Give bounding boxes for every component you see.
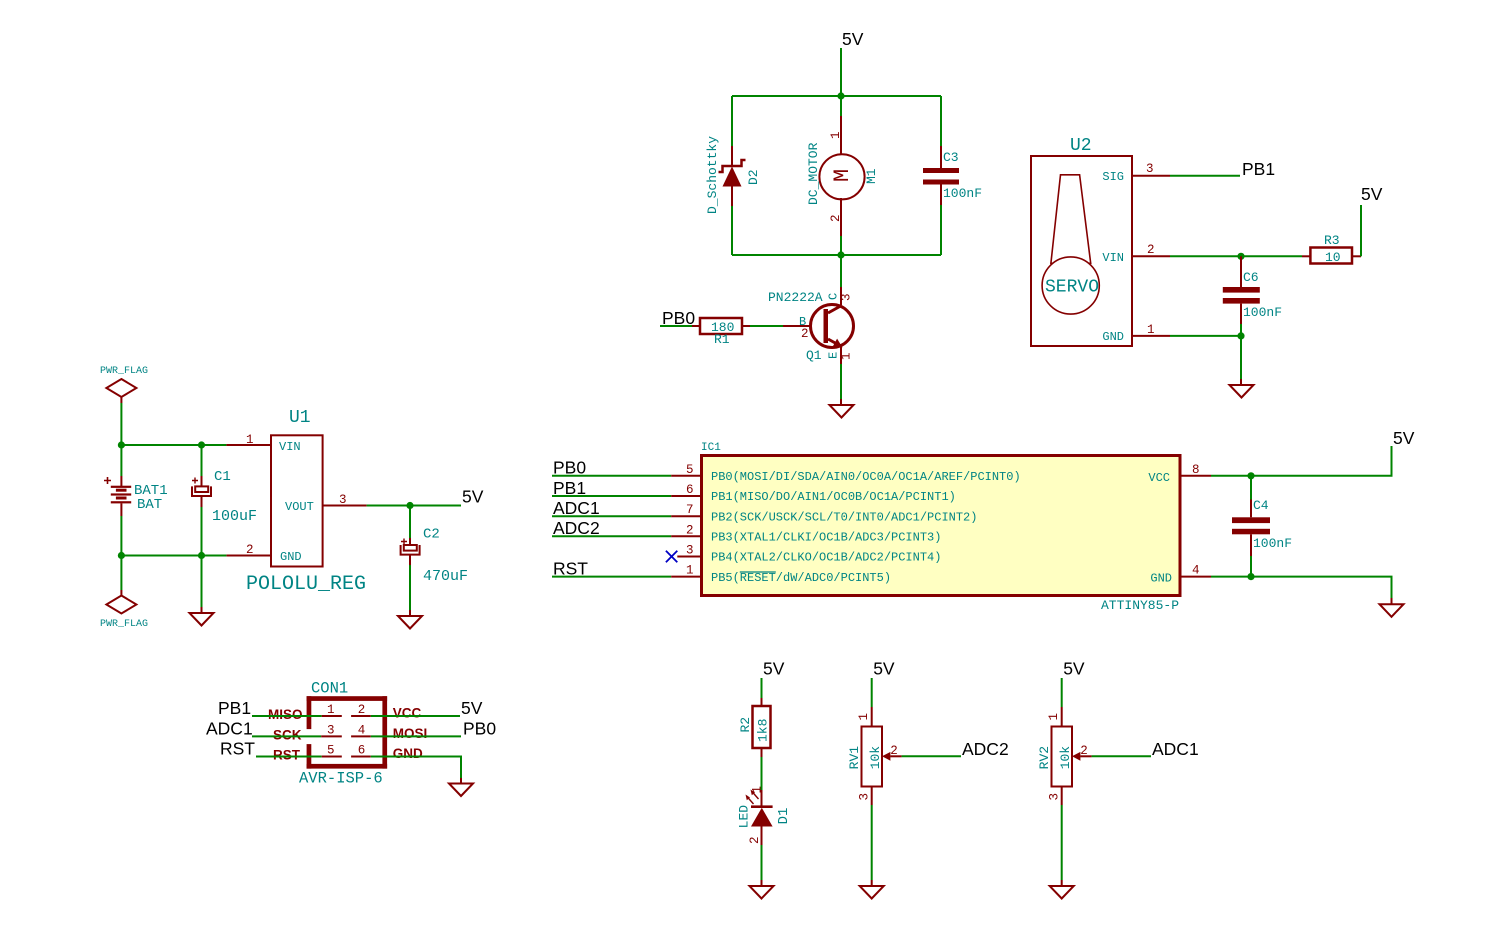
battery BAT1 [104,476,131,516]
wire motor pin1 to rail [840,96,842,116]
pin SIG (U2 pin 3) [1132,175,1170,177]
LED D1 [746,790,773,846]
wire D1 to ground [761,845,763,880]
ground (CON1) [449,778,473,796]
potentiometer RV2 [1052,707,1092,805]
wire RV2 wiper to ADC1 [1092,755,1151,757]
no-connect X [666,551,677,562]
wire battery to GND rail [120,516,122,556]
svg-text:PB2(SCK/USCK/SCL/T0/INT0/ADC1/: PB2(SCK/USCK/SCL/T0/INT0/ADC1/PCINT2) [711,510,977,524]
resistor R2 [753,698,771,757]
wire C3 branch lower [940,205,942,255]
svg-text:6: 6 [686,483,694,497]
node junction GND/C6 [1237,332,1244,339]
svg-text:470uF: 470uF [423,568,468,585]
svg-text:RV1: RV1 [847,746,862,770]
capacitor C1 [192,476,211,507]
wire pin 4 to PB0 [371,735,461,737]
svg-text:VIN: VIN [279,440,301,454]
wire VIN rail [121,444,226,446]
svg-text:5: 5 [327,744,335,758]
svg-text:3: 3 [840,293,854,301]
svg-text:PB0: PB0 [463,719,496,739]
svg-text:C4: C4 [1253,498,1269,513]
wire C6 to GND rail [1240,324,1242,336]
svg-text:CON1: CON1 [311,680,348,698]
svg-text:5V: 5V [1393,428,1415,448]
svg-text:SIG: SIG [1102,170,1124,184]
node junction C2/5V [406,502,413,509]
svg-text:PB0: PB0 [553,458,586,478]
CON1 pin 3 [321,735,342,737]
regulator U1 pin 3 VOUT [323,505,367,507]
node junction bottom rail [837,251,844,258]
IC1 pin 2 [671,535,701,537]
IC IC1 ATTINY85-P body [702,456,1181,596]
svg-text:1: 1 [327,703,335,717]
svg-text:100nF: 100nF [943,186,982,201]
svg-text:PB1: PB1 [1242,159,1275,179]
ground (RV1) [860,880,884,899]
svg-text:PB3(XTAL1/CLKI/OC1B/ADC3/PCINT: PB3(XTAL1/CLKI/OC1B/ADC3/PCINT3) [711,531,941,545]
wire PWR_FLAG to VIN rail [120,403,122,445]
wire ADC2 to pin 2 [552,535,671,537]
svg-text:3: 3 [339,493,347,507]
wire R1 to Q1 base [750,325,783,327]
svg-text:8: 8 [1192,463,1200,477]
diode D2 D_Schottky [719,146,746,206]
svg-text:Q1: Q1 [806,348,822,363]
wire C2 to ground [409,565,411,610]
ground (C1) [190,607,214,626]
svg-text:ADC1: ADC1 [1152,739,1199,759]
svg-text:R2: R2 [738,717,753,733]
wire GND to ground [1211,577,1392,598]
svg-text:PB1: PB1 [218,698,251,718]
svg-text:7: 7 [686,503,694,517]
wire 5V to top rail [840,48,842,96]
node junction C4 bottom [1247,573,1254,580]
svg-text:4: 4 [358,723,366,737]
svg-text:ATTINY85-P: ATTINY85-P [1101,598,1179,613]
svg-text:1k8: 1k8 [756,719,771,742]
svg-text:2: 2 [829,214,843,222]
svg-text:D_Schottky: D_Schottky [705,136,720,214]
svg-text:1: 1 [840,352,854,360]
IC1 pin 1 [671,576,701,578]
regulator U1 body [271,435,323,566]
motor M1 pin 2 [840,198,842,236]
CON1 pin 4 [351,735,371,737]
wire 5V to R2 [761,678,763,698]
wire C3 branch upper [940,96,942,146]
svg-text:3: 3 [1146,162,1154,176]
svg-text:3: 3 [1047,793,1061,801]
wire C4 top [1250,476,1252,500]
IC1 pin 5 [671,475,701,477]
svg-text:1: 1 [1047,713,1061,721]
svg-text:C6: C6 [1243,270,1259,285]
node junction C1/GND [198,552,205,559]
resistor R3 [1302,248,1361,264]
svg-text:PB0(MOSI/DI/SDA/AIN0/OC0A/OC1A: PB0(MOSI/DI/SDA/AIN0/OC0A/OC1A/AREF/PCIN… [711,470,1021,484]
svg-text:PB1(MISO/DO/AIN1/OC0B/OC1A/PCI: PB1(MISO/DO/AIN1/OC0B/OC1A/PCINT1) [711,490,956,504]
wire C1 to GND rail [201,507,203,556]
wire GND rail to PWR_FLAG bottom [120,556,122,591]
svg-text:AVR-ISP-6: AVR-ISP-6 [299,770,383,788]
svg-text:10k: 10k [1058,746,1073,770]
svg-text:2: 2 [686,523,694,537]
node junction BAT/VIN [118,441,125,448]
ground (RV2) [1050,880,1074,899]
power flag PWR_FLAG (top) [100,366,148,403]
wire ADC1 to pin 7 [552,515,671,517]
motor M1 DC_MOTOR [819,154,864,199]
power flag PWR_FLAG (bottom) [100,590,148,630]
wire SIG to PB1 [1170,175,1240,177]
wire VCC to 5V [1211,446,1392,476]
svg-text:5: 5 [686,463,694,477]
potentiometer RV1 [862,707,902,805]
svg-text:R3: R3 [1324,233,1340,248]
svg-text:5V: 5V [462,487,484,507]
CON1 pin 2 [351,715,371,717]
wire ADC1 to pin 3 [252,735,321,737]
svg-text:5V: 5V [1063,659,1085,679]
svg-text:GND: GND [393,746,423,761]
pin VIN (U2 pin 2) [1132,255,1170,257]
svg-text:GND: GND [1102,330,1124,344]
svg-text:C2: C2 [423,527,440,543]
IC1 pin 3 (no connect) [677,556,701,558]
wire GND pin to junction [1170,335,1241,337]
motor M1 pin 1 [840,116,842,154]
svg-text:M: M [830,169,855,182]
wire D2 branch upper [731,96,733,146]
svg-text:1: 1 [1147,323,1155,337]
svg-text:RV2: RV2 [1037,746,1052,769]
svg-text:VCC: VCC [393,706,422,721]
svg-text:BAT: BAT [137,497,162,513]
svg-text:3: 3 [857,793,871,801]
svg-text:2: 2 [890,744,898,758]
IC1 pin 6 [671,495,701,497]
svg-text:1: 1 [686,564,694,578]
svg-text:5V: 5V [763,659,785,679]
wire 5V to RV1 [871,678,873,707]
svg-text:C1: C1 [214,469,231,485]
svg-text:GND: GND [280,550,302,564]
IC1 pin 8 [1181,475,1211,477]
node junction BAT/GND [118,552,125,559]
regulator U1 pin 1 VIN [226,444,271,446]
wire RST to pin 5 [256,756,322,758]
svg-text:6: 6 [358,744,366,758]
wire 5V to RV2 [1061,678,1063,707]
svg-text:PN2222A: PN2222A [768,290,823,305]
wire 5V junction to C2 [409,506,411,539]
wire top rail [732,95,941,97]
wire Q1 emitter to ground [840,364,842,399]
svg-text:3: 3 [686,544,694,558]
svg-text:1: 1 [751,786,765,794]
svg-text:2: 2 [1080,744,1088,758]
svg-text:MOSI: MOSI [393,726,428,741]
wire junction to ground [1240,336,1242,379]
svg-text:4: 4 [1192,564,1200,578]
svg-text:D2: D2 [746,169,761,185]
wire D2 branch lower [731,206,733,255]
svg-text:2: 2 [801,327,809,341]
servo horn circle [1042,257,1099,314]
servo U2 body [1031,156,1132,346]
svg-text:5V: 5V [842,29,864,49]
ground (servo) [1230,379,1254,398]
wire C4 bottom [1250,556,1252,577]
svg-text:MISO: MISO [268,707,303,722]
ground (IC1) [1380,598,1404,617]
svg-text:1: 1 [857,713,871,721]
wire rail to C1 [201,445,203,476]
svg-text:2: 2 [246,543,254,557]
svg-text:1: 1 [829,131,843,139]
svg-text:ADC1: ADC1 [206,719,253,739]
svg-text:PWR_FLAG: PWR_FLAG [100,366,148,377]
wire pin 6 to ground [371,757,461,779]
capacitor C4 [1232,500,1270,557]
svg-text:2: 2 [748,836,762,844]
wire motor pin2 to rail [840,236,842,255]
svg-text:100nF: 100nF [1243,305,1282,320]
wire PB0 to R1 [660,325,692,327]
svg-text:2: 2 [1147,243,1155,257]
svg-text:100nF: 100nF [1253,536,1292,551]
node junction top rail [837,92,844,99]
svg-text:100uF: 100uF [212,508,257,525]
wire VOUT to 5V [367,505,461,507]
wire PB0 to pin 5 [552,475,671,477]
node junction VIN/C6 [1237,253,1244,260]
svg-text:VIN: VIN [1102,251,1124,265]
svg-text:GND: GND [1150,571,1172,585]
svg-text:SERVO: SERVO [1045,278,1099,298]
svg-text:PB5(RESET/dW/ADC0/PCINT5): PB5(RESET/dW/ADC0/PCINT5) [711,571,891,585]
wire R3 to 5V [1360,205,1362,256]
wire RST to pin 1 [552,576,671,578]
svg-text:3: 3 [327,723,335,737]
wire PB1 to pin 6 [552,495,671,497]
svg-text:10k: 10k [868,746,883,770]
wire rail to Q1 collector [840,255,842,287]
resistor R1 [692,318,750,334]
svg-text:PWR_FLAG: PWR_FLAG [100,619,148,630]
wire C1 column to ground [201,556,203,608]
servo horn trapezoid [1051,175,1091,263]
svg-text:LED: LED [737,805,752,829]
svg-text:ADC1: ADC1 [553,498,600,518]
svg-text:DC_MOTOR: DC_MOTOR [806,142,821,205]
svg-text:RST: RST [273,748,301,763]
svg-text:E: E [827,352,841,359]
svg-text:PB4(XTAL2/CLKO/OC1B/ADC2/PCINT: PB4(XTAL2/CLKO/OC1B/ADC2/PCINT4) [711,551,941,565]
node junction C1/VIN [198,441,205,448]
svg-text:VCC: VCC [1148,471,1170,485]
IC1 pin 4 [1181,576,1211,578]
wire R2 to D1 [761,757,763,790]
capacitor C2 [401,538,420,565]
svg-text:POLOLU_REG: POLOLU_REG [246,573,366,596]
transistor Q1 PN2222A [783,287,854,364]
svg-text:D1: D1 [776,808,792,825]
ground (C2) [398,610,422,629]
svg-text:IC1: IC1 [701,442,721,454]
svg-text:ADC2: ADC2 [962,739,1009,759]
svg-text:U1: U1 [289,408,311,428]
connector CON1 body [307,696,388,768]
svg-text:PB1: PB1 [553,478,586,498]
svg-text:5V: 5V [461,698,483,718]
svg-text:5V: 5V [873,659,895,679]
svg-text:RST: RST [220,739,255,759]
capacitor C3 [923,146,959,205]
svg-text:C: C [827,293,841,300]
CON1 pin 1 [322,715,342,717]
regulator U1 pin 2 GND [226,555,271,557]
wire pin 2 to 5V [371,715,460,717]
capacitor C6 [1223,256,1260,324]
svg-text:R1: R1 [714,332,730,347]
IC1 pin 7 [671,515,701,517]
CON1 pin 6 [351,756,371,758]
ground (D1) [750,880,774,899]
wire VIN to R3 [1170,255,1302,257]
wire bottom rail [732,254,941,256]
svg-text:ADC2: ADC2 [553,518,600,538]
wire GND rail [121,555,226,557]
wire RV1 wiper to ADC2 [902,755,961,757]
ground (Q1 emitter) [830,399,854,418]
svg-text:M1: M1 [864,168,879,184]
pin GND (U2 pin 1) [1132,335,1170,337]
svg-text:RST: RST [553,558,588,578]
svg-text:5V: 5V [1361,184,1383,204]
CON1 pin 5 [322,756,342,758]
wire rail to battery top [120,445,122,476]
svg-text:U2: U2 [1070,136,1092,156]
wire PB1 to pin 1 [252,715,322,717]
svg-text:VOUT: VOUT [285,500,314,514]
svg-text:C3: C3 [943,150,959,165]
svg-text:2: 2 [358,703,366,717]
svg-text:SCK: SCK [273,728,302,743]
node junction C4 top [1247,472,1254,479]
svg-text:10: 10 [1325,250,1341,265]
wire RV1 to ground [871,805,873,880]
wire RV2 to ground [1061,805,1063,880]
svg-text:1: 1 [246,433,254,447]
overline RESET [740,571,776,573]
